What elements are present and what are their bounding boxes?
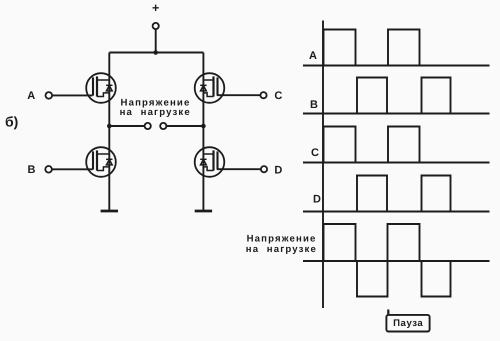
waveform load voltage: zero line <box>303 260 490 262</box>
transistor Q3 (lower left, input B) <box>86 147 116 177</box>
svg-text:Напряжение: Напряжение <box>247 233 317 244</box>
wire gate B <box>52 168 93 170</box>
wire right branch (drain Q2 to source Q4) <box>202 53 204 212</box>
svg-text:на нагрузке: на нагрузке <box>120 107 191 118</box>
junction node right mid <box>201 124 206 129</box>
waveform A: pulse 2 <box>388 30 420 66</box>
wire gate A <box>52 94 92 96</box>
svg-text:A: A <box>309 50 317 62</box>
waveform D: pulse 2 <box>422 176 451 212</box>
ground (right leg) <box>195 210 212 213</box>
svg-text:D: D <box>313 194 321 206</box>
waveform A: baseline <box>303 65 490 67</box>
waveform C: baseline <box>303 162 490 164</box>
load terminal left (open circle) <box>145 123 151 129</box>
waveform D: pulse 1 <box>357 176 387 212</box>
supply terminal (open circle) <box>153 23 159 29</box>
waveform B: pulse 1 <box>357 78 387 114</box>
svg-text:B: B <box>28 164 36 176</box>
waveform D: baseline <box>303 211 490 213</box>
waveform A: pulse 1 <box>324 30 356 66</box>
ground (left leg) <box>101 210 118 213</box>
wire left branch (drain Q1 to source Q3) <box>108 53 110 212</box>
wire supply to top rail <box>155 29 157 52</box>
svg-text:C: C <box>311 147 319 159</box>
svg-text:б): б) <box>5 114 18 130</box>
terminal A (open circle) <box>46 92 53 99</box>
wire gate D <box>217 168 261 170</box>
waveform B: pulse 2 <box>422 78 451 114</box>
wire top rail <box>109 52 203 54</box>
terminal D (open circle) <box>261 166 267 172</box>
wire gate C <box>217 94 260 96</box>
transistor Q2 (upper right, input C) <box>195 73 225 103</box>
wire mid rail right segment <box>166 125 203 127</box>
pause label box <box>386 315 429 332</box>
svg-text:+: + <box>152 1 159 15</box>
waveform B: baseline <box>303 113 490 115</box>
waveform load voltage: positive pulse 1 <box>324 224 356 261</box>
wire mid rail left segment <box>109 125 144 127</box>
svg-text:C: C <box>274 90 282 102</box>
junction node left mid <box>107 124 112 129</box>
svg-text:D: D <box>274 164 282 176</box>
waveform C: pulse 1 <box>324 127 356 163</box>
waveform time axis (vertical) <box>322 21 324 309</box>
svg-text:на нагрузке: на нагрузке <box>246 244 317 255</box>
waveform load voltage: negative pulse 1 then positive pulse 2 <box>357 224 420 297</box>
svg-text:B: B <box>310 99 318 111</box>
terminal B (open circle) <box>45 166 52 173</box>
transistor Q1 (upper left, input A) <box>86 73 116 103</box>
load terminal right (open circle) <box>160 123 166 129</box>
svg-text:A: A <box>27 90 35 102</box>
waveform load voltage: negative pulse 2 <box>422 261 451 297</box>
waveform C: pulse 2 <box>388 127 420 163</box>
terminal C (open circle) <box>260 92 266 98</box>
junction dot on top rail <box>153 50 158 55</box>
transistor Q4 (lower right, input D) <box>195 147 225 177</box>
svg-text:Пауза: Пауза <box>393 318 423 329</box>
pause marker tick <box>387 310 389 316</box>
